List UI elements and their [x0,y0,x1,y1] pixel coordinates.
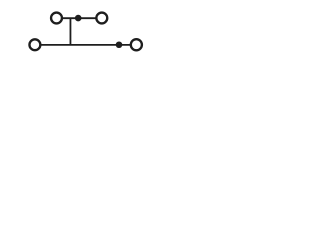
junction dot lower [116,41,123,48]
wire lower rail [41,44,131,46]
terminal circle X2 upper-right [96,13,107,24]
terminal circle X4 lower-right [131,39,142,50]
wire vertical bridge [69,18,71,45]
junction dot upper [75,15,82,22]
wire upper rail [63,17,97,19]
terminal circle X1 upper-left [51,13,62,24]
terminal circle X3 lower-left [29,39,40,50]
